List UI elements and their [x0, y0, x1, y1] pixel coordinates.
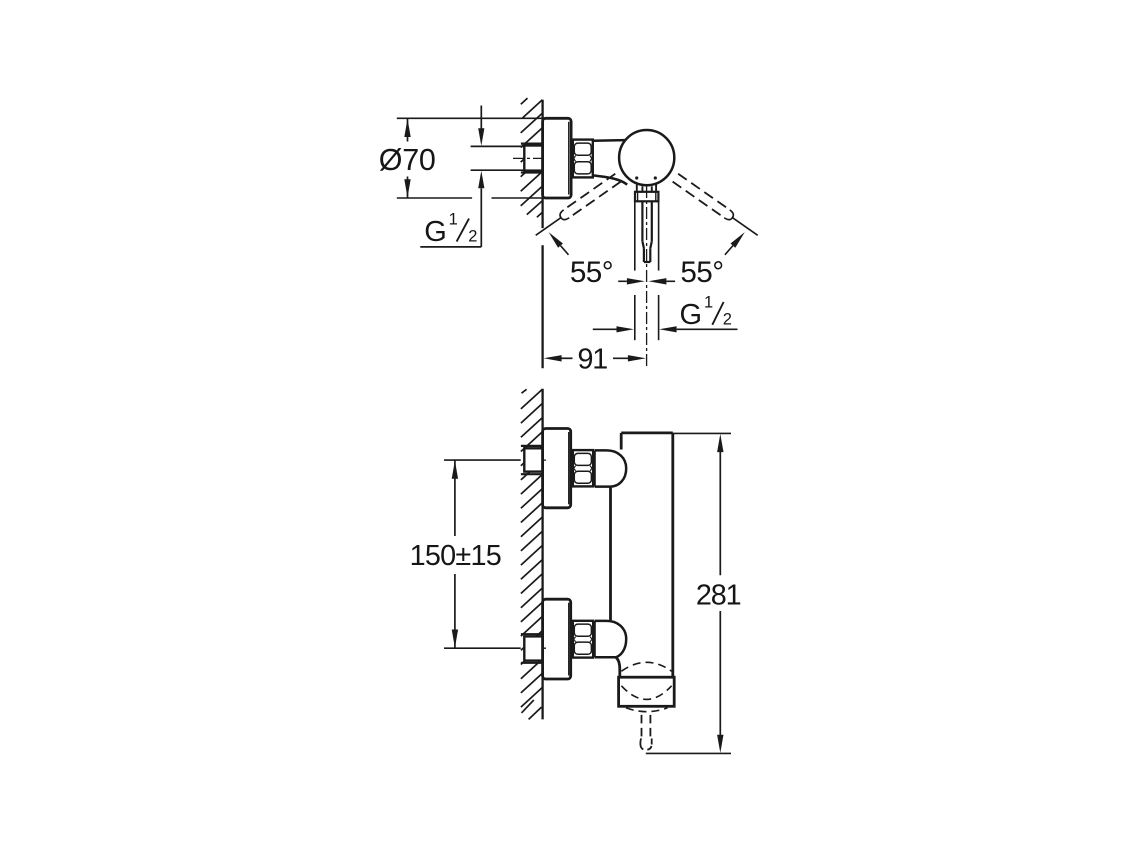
handle dome circle (top view) [619, 130, 674, 185]
hose nipple [640, 715, 651, 750]
dim G1/2 bottom: dimension line [593, 328, 618, 330]
wall hatch (front view) [521, 389, 543, 719]
escutcheon inner edge line [568, 122, 570, 195]
svg-text:281: 281 [696, 580, 741, 612]
svg-text:G: G [424, 216, 447, 248]
svg-text:G: G [680, 299, 703, 331]
top escutcheon (front) [543, 429, 571, 508]
bottom union dome [595, 621, 626, 657]
top hex nut (front) [573, 450, 593, 486]
dim 281 extension lines [673, 432, 731, 434]
outlet extension lines (below lever) [635, 201, 659, 340]
dim 91 dimension line [544, 355, 562, 361]
shower outlet block [619, 677, 675, 706]
dim 150 extension line bottom / inlet centerline [444, 647, 521, 649]
svg-text:1: 1 [704, 294, 713, 312]
lever shaft [642, 201, 651, 262]
dim Ø70 extension lines [397, 118, 560, 198]
svg-text:2: 2 [723, 311, 732, 329]
top union dome [595, 450, 626, 486]
wall line (top view) [541, 100, 543, 368]
svg-text:150±15: 150±15 [410, 540, 501, 572]
angular dim arrow at left phantom line [549, 232, 563, 248]
svg-text:55°: 55° [570, 256, 613, 289]
phantom lever rotated +55 (right): dashed sides + end cap + dim line [673, 174, 761, 240]
svg-text:Ø70: Ø70 [379, 143, 436, 177]
dim 150 dimension line + arrows [454, 460, 456, 536]
svg-text:1: 1 [449, 210, 458, 228]
pipe centerline (top view) [513, 157, 546, 159]
mixer body outline [611, 433, 673, 677]
svg-text:91: 91 [578, 344, 608, 376]
dim G1/2 top label [424, 210, 477, 248]
pipe square end (top view) [524, 146, 542, 171]
bottom escutcheon (front) [543, 599, 571, 679]
escutcheon (top view, side) [543, 118, 572, 198]
supply pipe lines (top view) [471, 146, 525, 170]
valve body cone (top view) [593, 139, 625, 142]
angular dim arrow at right phantom line [731, 232, 745, 248]
set screw dots [635, 176, 638, 179]
bottom hex nut (front) [573, 621, 593, 658]
hex nut (top view) [573, 140, 593, 178]
top pipe square [524, 448, 542, 471]
angular dim arrows at centerline [627, 278, 645, 284]
dim G1/2 bottom label [680, 294, 732, 332]
dim 281 dimension line + arrows [719, 452, 721, 575]
bottom pipe washer lines [521, 634, 543, 663]
svg-text:2: 2 [468, 227, 477, 245]
pipe thread washer lines (top view) [521, 144, 543, 173]
dim G1/2 top: arrows at pipe [480, 106, 482, 130]
bottom pipe square [524, 636, 542, 660]
dim Ø70 dimension line and arrows [407, 118, 409, 198]
vertical centerline through lever [646, 186, 648, 368]
wall hatch (top view) [521, 98, 543, 217]
wall line (front view) [541, 389, 543, 720]
top pipe washer lines [521, 446, 543, 474]
svg-text:55°: 55° [680, 256, 723, 289]
hidden ball joint arcs (dashed) [621, 662, 671, 711]
lever collar [635, 192, 658, 202]
dim 150 extension line top / inlet centerline [444, 459, 521, 461]
phantom lever rotated -55 (left): dashed sides + end cap + dim line [533, 174, 621, 240]
lever neck below circle [637, 185, 656, 192]
